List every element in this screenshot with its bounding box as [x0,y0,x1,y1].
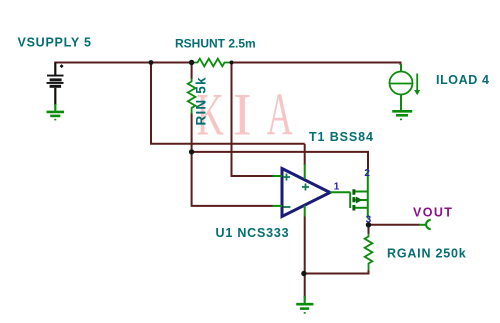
plus marker power [302,184,309,191]
ground (iload) [392,111,412,119]
svg-text:1: 1 [334,181,340,192]
svg-text:RIN 5k: RIN 5k [193,76,208,125]
junction node B (RIN top) [189,60,194,65]
svg-text:A: A [267,81,293,148]
resistor RIN [188,79,196,114]
wire RIN bottom to node C [192,113,273,206]
opamp V+ stub [304,164,306,179]
watermark KIA [197,81,293,148]
opamp + input stub [273,175,283,177]
wire opamp V- to ground [304,216,306,299]
wire top rail node A to node B [151,62,192,64]
resistor RGAIN [365,234,373,271]
battery V1 VSUPPLY [47,63,64,106]
svg-text:T1 BSS84: T1 BSS84 [309,130,374,144]
opamp output stub [330,191,350,193]
svg-text:RSHUNT 2.5m: RSHUNT 2.5m [175,36,256,50]
junction node C (RIN bottom) [189,149,194,154]
source stub [355,207,368,209]
svg-text:ILOAD 4: ILOAD 4 [436,73,490,87]
VOUT terminal arc [419,220,431,229]
svg-text:2: 2 [364,168,370,179]
wire ground node to RGAIN bottom [304,270,369,274]
wire RIN top stub [191,63,193,80]
svg-text:VSUPPLY 5: VSUPPLY 5 [18,36,92,50]
minus marker input [283,206,290,208]
ground (opamp) [296,296,313,313]
wire vsupply branch down x=151 [151,63,305,144]
iload arrow head [414,90,420,95]
drain stub [355,191,368,193]
opamp V- stub [304,206,306,217]
svg-text:RGAIN 250k: RGAIN 250k [387,246,467,260]
junction node RSHUNT right [230,61,234,65]
opamp - input stub [273,205,283,207]
svg-text:I: I [233,81,252,148]
channel segments [352,189,355,210]
svg-text:VOUT: VOUT [413,205,453,219]
wire VOUT horizontal [369,224,420,226]
gate bar [349,192,351,208]
op-amp U1 [273,164,351,217]
plus marker input [283,174,290,181]
resistor RSHUNT [194,59,232,67]
wire top rail right of RSHUNT [232,62,401,66]
wire top rail left (battery to node A) [54,62,151,64]
wire opamp V+ supply drop [304,144,306,165]
svg-text:U1 NCS333: U1 NCS333 [216,226,290,240]
wire T1 source to RGAIN top [368,225,370,234]
wire RSHUNT right branch down x=231.5 [232,63,273,177]
junction node A [149,60,154,65]
junction node VOUT [366,222,371,227]
transistor T1 PMOS [350,169,368,218]
wire node C to T1 drain y=151.9 [192,152,368,169]
bulk stub [355,199,368,201]
junction node ground rail [301,271,306,276]
pmos bulk arrow [356,197,363,204]
D-S vertical [367,169,369,218]
current source ILOAD [390,64,418,111]
ground (battery) [47,104,65,120]
svg-text:3: 3 [366,215,372,226]
